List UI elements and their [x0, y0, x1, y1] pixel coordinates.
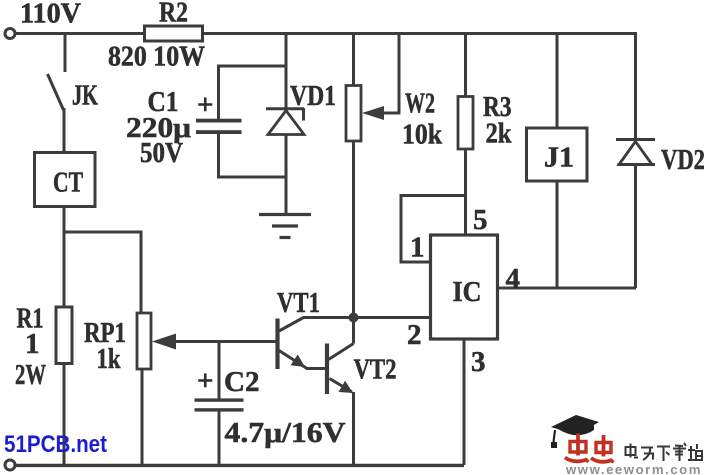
wire J1 bottom: [556, 181, 559, 288]
resistor R2: [145, 26, 203, 41]
transistor Q2 VT2: [327, 344, 354, 395]
svg-text:5: 5: [473, 204, 488, 236]
svg-text:10k: 10k: [402, 119, 443, 151]
svg-text:VT1: VT1: [277, 287, 320, 319]
svg-text:JK: JK: [72, 80, 98, 112]
wire CT to R1: [63, 232, 66, 307]
potentiometer W2: [346, 86, 361, 142]
svg-text:1: 1: [25, 328, 40, 360]
svg-text:CT: CT: [53, 167, 83, 199]
switch JK blade: [48, 74, 64, 110]
wire pin 2: [354, 316, 431, 319]
svg-text:+: +: [197, 365, 214, 397]
svg-text:www.eeworm.com: www.eeworm.com: [565, 462, 702, 475]
svg-text:1: 1: [410, 232, 425, 264]
wire R3 to pin 5: [464, 149, 467, 235]
wire VD2 top: [634, 34, 637, 140]
potentiometer RP1: [137, 313, 151, 369]
resistor R3: [458, 97, 473, 150]
wire pin 1 loop: [401, 196, 466, 263]
svg-text:IC: IC: [453, 276, 482, 308]
wire CT bottom: [63, 207, 66, 233]
wire branch to RP1: [64, 232, 141, 313]
wire R3 top: [464, 34, 467, 97]
wire C1 top drop: [219, 66, 287, 119]
svg-text:2W: 2W: [15, 359, 46, 391]
wire VD1 top: [285, 34, 288, 109]
watermark graduation cap logo: [551, 415, 599, 448]
svg-text:VD2: VD2: [661, 144, 704, 176]
wire RP1 bottom: [141, 369, 144, 465]
wire pin 4: [498, 287, 637, 290]
wire VT2 emitter down: [352, 392, 355, 465]
wire W2 top: [352, 34, 355, 86]
op-amp U1 IC box: [431, 235, 498, 339]
svg-text:VD1: VD1: [290, 80, 336, 112]
svg-text:110V: 110V: [20, 0, 81, 30]
wire W2 wiper: [362, 34, 399, 121]
svg-text:W2: W2: [405, 88, 435, 120]
wire R1 bottom: [63, 364, 66, 466]
svg-text:4.7μ/16V: 4.7μ/16V: [225, 417, 346, 449]
svg-text:R2: R2: [159, 0, 188, 29]
terminal bottom-left: [5, 460, 15, 470]
svg-text:820 10W: 820 10W: [108, 41, 205, 73]
wire pin 3: [463, 339, 466, 465]
terminal top-left: [5, 29, 15, 39]
wire JK stub: [64, 34, 67, 73]
watermark chongchong characters: [565, 434, 614, 463]
transformer CT box: [35, 153, 96, 207]
svg-text:VT2: VT2: [354, 354, 397, 386]
svg-text:2k: 2k: [486, 118, 513, 150]
wire C1 bottom: [219, 134, 287, 177]
svg-text:51PCB.net: 51PCB.net: [4, 431, 107, 458]
svg-text:4: 4: [506, 263, 521, 295]
transistor Q1 VT1: [278, 318, 354, 370]
relay J1 box: [527, 128, 588, 181]
capacitor C2: [195, 342, 244, 466]
svg-text:C2: C2: [224, 366, 259, 398]
wire J1 top: [556, 34, 559, 129]
svg-text:2: 2: [407, 319, 422, 351]
svg-text:+: +: [197, 89, 214, 121]
ground: [259, 215, 311, 238]
wire top rail right: [203, 32, 638, 35]
resistor R1: [56, 307, 72, 364]
wire bottom rail: [15, 464, 464, 467]
wire VD1 to ground: [285, 135, 288, 215]
wire RP1 wiper to VT1 base: [152, 334, 278, 350]
diode VD2: [616, 140, 655, 165]
svg-text:J1: J1: [544, 142, 574, 174]
svg-text:1k: 1k: [97, 343, 122, 375]
svg-text:50V: 50V: [140, 137, 183, 169]
node A collector junction: [349, 313, 359, 323]
watermark site name: [626, 443, 703, 461]
wire top rail left: [15, 32, 145, 35]
zener diode VD1: [266, 108, 304, 135]
capacitor C1: [196, 119, 242, 134]
wire W2 bottom to collector node: [352, 141, 355, 344]
svg-text:3: 3: [471, 346, 486, 378]
wire VD2 bottom: [634, 165, 637, 289]
wire JK to CT: [63, 108, 66, 153]
